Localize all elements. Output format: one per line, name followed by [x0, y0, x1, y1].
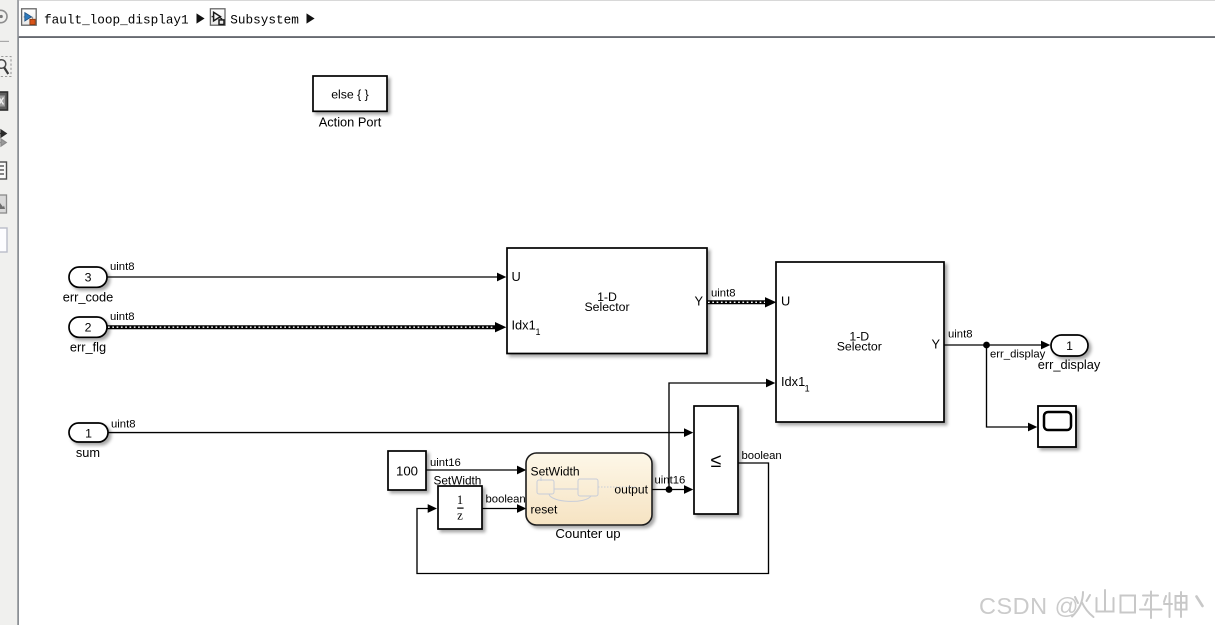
svg-text:1: 1: [1066, 339, 1073, 353]
inport 2 err_flg: [69, 317, 107, 337]
svg-text:1: 1: [457, 493, 463, 507]
svg-text:uint8: uint8: [711, 288, 736, 300]
svg-text:err_display: err_display: [1038, 357, 1101, 372]
svg-text:U: U: [512, 269, 521, 284]
svg-text:Action Port: Action Port: [319, 115, 382, 130]
svg-text:Subsystem: Subsystem: [230, 12, 299, 27]
svg-text:uint8: uint8: [110, 261, 135, 273]
sidebar separator: [0, 40, 9, 42]
svg-text:sum: sum: [76, 445, 100, 460]
svg-text:100: 100: [396, 464, 418, 479]
svg-text:uint8: uint8: [111, 419, 136, 431]
svg-text:Idx1: Idx1: [512, 317, 536, 332]
breadcrumb model icon 2: [210, 9, 225, 25]
sidebar icon: empty panel square: [0, 228, 7, 252]
counter up subsystem: [526, 453, 652, 525]
watermark chinese glyph che: [1140, 592, 1162, 619]
wire unit delay to counter reset: [482, 504, 526, 513]
selector 1 (1-D Selector): [507, 248, 707, 354]
svg-text:1: 1: [805, 384, 810, 394]
sidebar right border: [17, 0, 18, 625]
svg-text:≤: ≤: [711, 450, 722, 472]
inport 3 err_code: [69, 267, 107, 287]
svg-text:Selector: Selector: [584, 300, 629, 314]
watermark chinese glyph huo: [1072, 592, 1094, 617]
sidebar icon: fit-to-view dark square: [0, 92, 8, 110]
wire err_flg to selector1 Idx1 (thick dotted): [107, 322, 506, 332]
watermark chinese glyph kou: [1121, 596, 1136, 613]
wire selector1 Y to selector2 U (thick dotted): [707, 297, 776, 307]
svg-text:CSDN @: CSDN @: [979, 593, 1079, 619]
svg-text:err_code: err_code: [63, 290, 114, 305]
breadcrumb arrow 1: [197, 13, 205, 23]
feedback wire relational output to unit delay input: [417, 463, 769, 574]
svg-text:Idx1: Idx1: [781, 374, 805, 389]
left sidebar background: [0, 0, 17, 625]
selector 2 (1-D Selector): [776, 262, 944, 422]
svg-text:reset: reset: [531, 502, 559, 516]
sidebar icon: document list: [0, 162, 7, 179]
counter up ghost content: [537, 477, 637, 501]
scope block: [1038, 406, 1076, 447]
wire junction down to scope: [987, 345, 1038, 431]
watermark chinese glyph dot: [1197, 597, 1203, 607]
breadcrumb arrow 2: [307, 13, 315, 23]
svg-text:boolean: boolean: [486, 494, 526, 506]
svg-text:1: 1: [536, 327, 541, 337]
unit delay 1/z: [438, 486, 482, 529]
svg-text:z: z: [457, 508, 463, 523]
constant 100: [388, 451, 426, 490]
sidebar icon: double step arrows: [0, 130, 6, 146]
inport 1 sum: [69, 423, 108, 442]
wire branch to selector2 Idx1: [669, 379, 775, 490]
svg-text:uint8: uint8: [110, 311, 135, 323]
wire err_code to selector1 U: [107, 273, 506, 282]
watermark chinese glyph shan: [1097, 590, 1114, 612]
svg-text:uint16: uint16: [430, 457, 461, 469]
svg-text:uint8: uint8: [948, 329, 973, 341]
svg-text:else { }: else { }: [331, 88, 369, 102]
sidebar icon: image thumbnail: [0, 195, 7, 213]
svg-text:uint16: uint16: [655, 475, 686, 487]
svg-text:boolean: boolean: [742, 450, 782, 462]
svg-text:U: U: [781, 294, 790, 309]
action port block: [313, 76, 387, 111]
wire sum to relational top input: [108, 428, 693, 437]
svg-text:Y: Y: [694, 294, 703, 309]
svg-text:fault_loop_display1: fault_loop_display1: [44, 12, 189, 27]
sidebar icon: zoom marquee: [0, 57, 11, 77]
relational operator block <=: [694, 406, 738, 514]
wire 100 to counter SetWidth: [426, 466, 526, 475]
junction node on counter output: [666, 486, 673, 493]
svg-text:1: 1: [85, 426, 92, 440]
watermark chinese glyph shen: [1164, 592, 1187, 617]
wire selector2 Y to outport: [944, 341, 1050, 350]
svg-text:Y: Y: [931, 337, 940, 352]
breadcrumb model icon 1: [22, 9, 37, 25]
svg-text:Counter up: Counter up: [555, 526, 620, 541]
top breadcrumb bar: [19, 0, 1215, 38]
sidebar icon: hide-panel ring: [0, 10, 7, 22]
svg-text:err_flg: err_flg: [70, 340, 106, 355]
svg-text:output: output: [614, 483, 648, 497]
junction node on err_display wire: [983, 342, 990, 349]
svg-text:SetWidth: SetWidth: [531, 464, 580, 478]
svg-text:Selector: Selector: [837, 340, 882, 354]
outport 1 err_display: [1051, 335, 1088, 356]
wire counter output to relational bottom input: [652, 485, 693, 494]
svg-text:3: 3: [85, 271, 92, 285]
svg-text:2: 2: [85, 321, 92, 335]
